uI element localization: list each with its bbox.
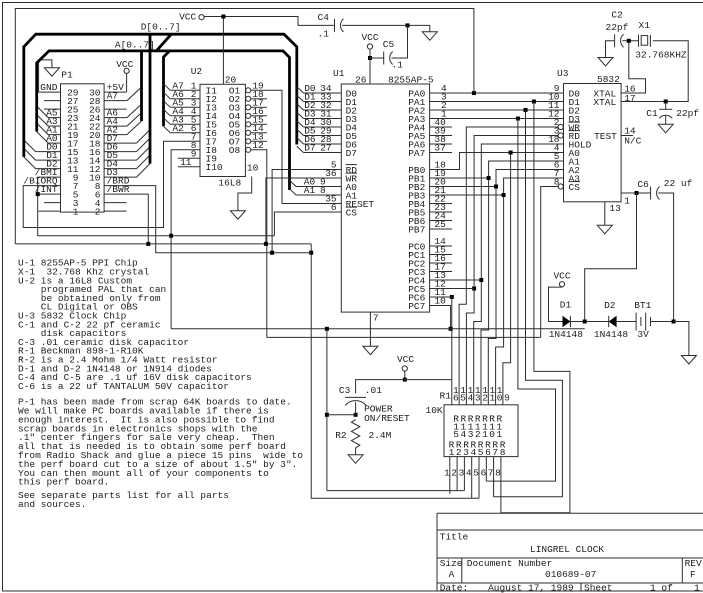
svg-text:C1: C1 [646, 108, 658, 119]
svg-text:.1: .1 [318, 29, 330, 40]
wire P1 A4 to A bus channel [104, 125, 127, 127]
wire P1 pin2 stub [104, 210, 127, 212]
wire U1 D3 from bus [297, 112, 304, 118]
svg-text:8: 8 [320, 185, 326, 196]
wire P1 A1 to A bus [48, 134, 60, 136]
wire R1 pin6 bottom [485, 457, 487, 482]
svg-text:3: 3 [475, 393, 481, 404]
svg-text:VCC: VCC [553, 271, 570, 282]
wire run to R1 pin3 [327, 490, 465, 492]
wire R1 pin1 bottom stub [449, 457, 451, 494]
wire run B (U2 O8 to U3 CS) [267, 336, 541, 338]
svg-text:1: 1 [444, 467, 450, 478]
wire net PA2/D2 [430, 109, 564, 111]
svg-text:1 of: 1 of [650, 583, 673, 593]
svg-text:17: 17 [624, 93, 635, 104]
wire U1 D4 from bus [297, 121, 304, 127]
pin U2 O8 bubble [246, 147, 251, 152]
wire X1 right to XTAL pin17 [621, 41, 688, 102]
ground R2 [348, 455, 363, 464]
svg-text:27: 27 [320, 143, 331, 154]
svg-text:PA7: PA7 [408, 148, 425, 159]
node PC7/run A junction [449, 327, 453, 331]
svg-text:4: 4 [468, 393, 474, 404]
wire U1 D1 from bus [297, 95, 304, 101]
wire net WR to R1 pin15 [459, 127, 558, 405]
svg-text:2: 2 [456, 447, 462, 458]
svg-text:5: 5 [478, 447, 484, 458]
node PA0 junction [472, 91, 476, 95]
svg-text:1: 1 [694, 583, 700, 593]
svg-text:N/C: N/C [624, 136, 641, 147]
svg-text:PB7: PB7 [408, 224, 425, 235]
wire VCC rail to C4 [204, 17, 334, 26]
wire P1 D4 to D bus channel [104, 168, 136, 170]
wire net D2 to R1 pin7 [494, 110, 563, 497]
title block [437, 512, 703, 514]
svg-text:1: 1 [73, 206, 79, 217]
svg-text:4: 4 [466, 467, 472, 478]
svg-text:3: 3 [463, 447, 469, 458]
node C4/C5 junction [406, 23, 410, 27]
svg-text:A2: A2 [172, 123, 184, 134]
node /BWR junction [146, 242, 150, 246]
ground U2 pin10 [230, 211, 245, 220]
wire U2 I9 stub [178, 157, 200, 159]
wire U1 PB6 stub [430, 220, 452, 222]
svg-text:10: 10 [247, 163, 259, 174]
wire U1 PA6 stub [430, 143, 452, 145]
wire net A0 second branch to R1 pin9 [503, 153, 511, 405]
node RD junction [270, 251, 274, 255]
svg-text:.01: .01 [365, 385, 382, 396]
svg-text:22pf: 22pf [676, 108, 699, 119]
wire D1 cathode to node [570, 321, 608, 323]
svg-text:7: 7 [488, 467, 494, 478]
svg-text:August 17, 1989: August 17, 1989 [488, 583, 574, 593]
svg-text:U1: U1 [333, 68, 345, 79]
node VCC reset junction [403, 378, 407, 382]
node power-on-reset junction [354, 413, 358, 417]
svg-text:C2: C2 [611, 10, 623, 21]
wire net /BMI run [38, 177, 275, 236]
wire U2 I8 drop to run A [171, 150, 200, 329]
wire net D1 to R1 pin8 [501, 102, 570, 513]
wire net PA1/D1 [430, 101, 564, 103]
ground U3 pin13 [597, 225, 612, 234]
wire U1 D2 from bus [297, 104, 304, 110]
wire U1 PA7 stub [430, 152, 452, 154]
wire U1 PC7 to run A [430, 306, 451, 329]
svg-text:A1: A1 [304, 185, 316, 196]
svg-text:8: 8 [495, 467, 501, 478]
wire VCC to D1 anode [549, 287, 563, 322]
svg-text:C5: C5 [383, 39, 395, 50]
wire P1 A2 to A bus channel [104, 134, 127, 136]
svg-text:and sources.: and sources. [18, 499, 86, 510]
wire net A0/PB0 [430, 153, 564, 170]
svg-text:VCC: VCC [361, 32, 378, 43]
wire U1 A0 from A bus [290, 180, 297, 186]
wire C5 to C4 node [391, 25, 407, 58]
PAL U2 16L8 [200, 84, 245, 176]
svg-text:1: 1 [449, 447, 455, 458]
wire P1 A0 to A bus [48, 142, 60, 144]
svg-text:26: 26 [355, 75, 367, 86]
wire U1 D7 from bus [297, 146, 304, 152]
PPI U1 8255AP-5 [341, 84, 429, 312]
bus D[0..7] top [24, 34, 297, 157]
node RD/PC5 junction [472, 287, 476, 291]
svg-text:D2: D2 [604, 300, 616, 311]
wire net PC6 pull to R1 pin16 [451, 297, 453, 405]
svg-text:2.4M: 2.4M [369, 430, 392, 441]
svg-text:A: A [449, 569, 455, 580]
wire U2 O3 stub [251, 106, 267, 108]
svg-text:4: 4 [471, 447, 477, 458]
wire net CS (U3) to run B [541, 187, 558, 338]
svg-text:GND: GND [40, 82, 57, 93]
wire P1 blank stubs left rows 27,25 [44, 100, 61, 102]
svg-text:CS: CS [569, 182, 581, 193]
wire P1 pin4 stub [104, 202, 127, 204]
svg-text:32.768KHZ: 32.768KHZ [635, 50, 687, 61]
bus A channel vertical (P1 right) [140, 52, 143, 121]
svg-text:2: 2 [95, 206, 101, 217]
svg-text:1N4148: 1N4148 [594, 329, 629, 340]
node PC6 junction [450, 295, 454, 299]
wire VCC to R1 pin16 [405, 379, 452, 381]
wire U2 I2 A6 [164, 92, 171, 99]
svg-text:9: 9 [504, 393, 510, 404]
svg-text:TEST: TEST [594, 131, 617, 142]
wire U1 PB4 stub [430, 203, 452, 205]
svg-text:8255AP-5: 8255AP-5 [388, 75, 434, 86]
svg-text:D[0..7]: D[0..7] [141, 22, 181, 33]
svg-text:6: 6 [453, 393, 459, 404]
wire R1 pin4 bottom stub [471, 457, 473, 499]
node PB1 junction [487, 176, 491, 180]
node WR junction [264, 242, 268, 246]
svg-text:C4: C4 [318, 12, 330, 23]
wire U2 pin10 to ground [238, 177, 252, 211]
clock chip U3 5832 [564, 84, 622, 202]
svg-text:Title: Title [440, 532, 469, 543]
svg-text:25: 25 [434, 219, 446, 230]
svg-text:20: 20 [225, 74, 237, 85]
wire U1 WR drop [266, 178, 341, 244]
bus A[0..7] top [37, 51, 290, 190]
svg-text:3: 3 [459, 467, 465, 478]
svg-text:12: 12 [252, 140, 264, 151]
wire net RD to R1 pin14 [466, 136, 558, 405]
svg-text:F: F [690, 569, 696, 580]
wire U2 O2 stub [251, 98, 267, 100]
wire net /BIORQ to U2 I7 [23, 141, 200, 227]
wire P1 blank stub right row 26 [104, 108, 127, 110]
node PB3 junction [502, 193, 506, 197]
svg-text:BT1: BT1 [634, 300, 651, 311]
wire net PA3/D3 [430, 118, 564, 120]
wire U1 A1 from A bus [290, 189, 297, 195]
pin U3 RD bubble [558, 133, 563, 138]
wire net U2 O1 to U1 RESET [251, 90, 341, 203]
svg-text:.1: .1 [392, 59, 404, 70]
wire U1 PC1 stub [430, 254, 452, 256]
wire U1 D0 from bus [297, 87, 304, 93]
svg-text:XTAL: XTAL [593, 97, 616, 108]
svg-text:Size: Size [440, 558, 463, 569]
svg-text:Date:: Date: [440, 583, 469, 593]
svg-text:VCC: VCC [397, 354, 414, 365]
svg-text:16L8: 16L8 [218, 178, 241, 189]
wire P1 D7 to D bus channel [104, 142, 136, 144]
wire net /BRD run [104, 186, 311, 253]
node diode junction [583, 320, 587, 324]
svg-text:C3: C3 [339, 385, 351, 396]
wire C6 left down to diode node [585, 193, 637, 322]
wire reset branch vertical [326, 329, 328, 491]
svg-text:D7: D7 [346, 148, 357, 159]
svg-text:X1: X1 [639, 20, 651, 31]
wire P1 pin1 stub [38, 210, 60, 212]
svg-text:CS: CS [346, 207, 358, 218]
wire run A [171, 328, 585, 330]
node /INT junction [36, 192, 40, 196]
ground C4 [422, 32, 437, 41]
svg-text:Document Number: Document Number [467, 558, 553, 569]
wire net PA0/D0 [430, 92, 564, 94]
ground P1 GND [39, 60, 61, 92]
bus D channel vertical (P1 right) [149, 36, 152, 164]
wire X1 left to XTAL pin16 [621, 43, 645, 93]
wire net PA0 to top rail [15, 9, 474, 244]
ground U1 pin7 [363, 346, 378, 355]
pin U2 O5 bubble [246, 122, 251, 127]
wire net HOLD to R1 pin13 [474, 144, 564, 405]
svg-text:PC7: PC7 [408, 301, 425, 312]
svg-text:C6: C6 [637, 179, 649, 190]
svg-text:5832: 5832 [597, 74, 620, 85]
svg-text:this perf board.: this perf board. [18, 477, 109, 488]
wire battery to ground [651, 321, 674, 323]
svg-text:REV: REV [685, 558, 702, 569]
wire P1 pin3 stub [44, 202, 61, 204]
svg-text:8: 8 [500, 447, 506, 458]
ground C2 [598, 58, 613, 67]
pin U3 TEST 14 N/C [621, 135, 633, 137]
wire U2 I4 A4 [164, 109, 171, 116]
svg-text:D1: D1 [560, 299, 572, 310]
wire P1 A7 to A bus channel [104, 100, 127, 102]
svg-text:6: 6 [485, 447, 491, 458]
svg-text:22pf: 22pf [606, 22, 629, 33]
svg-text:R1: R1 [440, 391, 452, 402]
wire P1 D6 to D bus channel [104, 151, 136, 153]
svg-text:5: 5 [460, 393, 466, 404]
node VCC/C5/U1-26 junction [368, 56, 372, 60]
wire C2 to X1 [622, 40, 638, 42]
wire U2 I3 A5 [164, 101, 171, 108]
svg-text:3V: 3V [637, 329, 649, 340]
wire P1 A3 to A bus [48, 125, 60, 127]
node run A / reset branch junction [325, 327, 329, 331]
svg-text:C-6 is a 22 uf TANTALUM 50V ca: C-6 is a 22 uf TANTALUM 50V capacitor [18, 381, 229, 392]
wire C6 right to battery node [658, 193, 673, 322]
svg-text:1N4148: 1N4148 [549, 329, 584, 340]
wire U2 I1 A7 [164, 84, 171, 91]
pin U2 O6 bubble [246, 130, 251, 135]
svg-text:2: 2 [482, 393, 488, 404]
wire P1 /INT join [38, 193, 61, 195]
wire P1 D3 to D bus channel [104, 176, 136, 178]
wire U1 PC5 [430, 288, 475, 290]
svg-text:U2: U2 [191, 66, 203, 77]
node C1 junction [664, 100, 668, 104]
wire U2 O7 stub [251, 140, 267, 142]
wire VCC to U1 pin 26 [369, 58, 371, 84]
wire U1 pin7 to ground [369, 312, 371, 346]
wire U1 RD drop [272, 170, 341, 253]
wire D2 anode to battery [617, 321, 637, 323]
pin U2 O3 bubble [246, 105, 251, 110]
svg-text:ON/RESET: ON/RESET [364, 413, 410, 424]
wire U3 pin13 to ground [604, 202, 606, 226]
svg-text:7: 7 [492, 447, 498, 458]
node PB2 junction [494, 185, 498, 189]
wire U1 PC2 stub [430, 262, 452, 264]
pin U3 CS bubble [558, 184, 563, 189]
wire U1 D5 from bus [297, 129, 304, 135]
svg-text:7: 7 [373, 313, 379, 324]
wire U2 O6 stub [251, 132, 267, 134]
wire R1 pin5 bottom [478, 457, 480, 499]
svg-text:U3: U3 [557, 68, 569, 79]
node VCC/U2-20 junction [221, 15, 225, 19]
wire U3 pin1 to C6 [621, 192, 651, 194]
wire P1 /BWR drop [104, 194, 148, 244]
wire U2 O5 stub [251, 123, 267, 125]
wire U1 PC3 stub [430, 271, 452, 273]
wire U2 I6 A2 [164, 126, 171, 133]
svg-text:37: 37 [434, 143, 445, 154]
svg-text:O8: O8 [229, 145, 241, 156]
node RD/WR runs junction [309, 251, 313, 255]
ground battery [681, 356, 696, 365]
svg-text:0: 0 [497, 393, 503, 404]
wire WR-net drop to R1 pin5 [311, 244, 479, 498]
wire U1 PC6 [430, 296, 452, 298]
svg-text:VCC: VCC [116, 59, 133, 70]
node power-on-reset tap [325, 413, 329, 417]
svg-text:22 uf: 22 uf [664, 178, 693, 189]
wire net A2/PB2 to R1 pin11 [430, 186, 496, 188]
svg-text:10K: 10K [426, 405, 443, 416]
wire R1 pin8 bottom [500, 457, 502, 513]
svg-text:13: 13 [609, 203, 621, 214]
wire R1 pin7 bottom [493, 457, 495, 497]
wire C4 to ground [342, 25, 430, 31]
wire U1 PC4 [430, 279, 482, 281]
wire U1 PB7 stub [430, 228, 452, 230]
node A0 row branch junction [509, 151, 513, 155]
svg-text:1: 1 [490, 393, 496, 404]
wire P1 A5 to A bus [48, 117, 60, 119]
svg-text:R2: R2 [335, 430, 347, 441]
wire U2 I5 A3 [164, 118, 171, 125]
wire U1 PA5 stub [430, 135, 452, 137]
ground C1 [658, 124, 673, 133]
wire U1 CS to run [274, 212, 341, 236]
node HOLD/PC4 junction [479, 278, 483, 282]
wire P1 D0 to D bus [36, 151, 61, 153]
wire R1 pin3 bottom [463, 457, 465, 491]
pin U2 O2 bubble [246, 96, 251, 101]
svg-text:6: 6 [481, 467, 487, 478]
wire P1 D2 to D bus [36, 168, 61, 170]
wire net /BWR run [15, 243, 311, 245]
pin U2 O4 bubble [246, 113, 251, 118]
svg-text:I10: I10 [206, 162, 223, 173]
wire U1 D6 from bus [297, 138, 304, 144]
connector P1 [61, 84, 105, 212]
node C6/pin1 junction [635, 191, 639, 195]
svg-text:VCC: VCC [179, 12, 196, 23]
svg-text:D7: D7 [304, 143, 315, 154]
wire U2 O4 stub [251, 115, 267, 117]
svg-text:010689-07: 010689-07 [545, 569, 596, 580]
wire P1 D5 to D bus channel [104, 159, 136, 161]
wire U1 PA4 stub [430, 126, 452, 128]
svg-text:A7: A7 [107, 91, 118, 102]
wire power-on-reset to reset branch [327, 414, 356, 416]
bus merge diagonal [156, 34, 171, 51]
wire net A1/PB1 to R1 pin12 [430, 177, 489, 179]
svg-text:5: 5 [473, 467, 479, 478]
wire U2 O8 to run B [251, 150, 267, 338]
wire C2 to ground [606, 41, 615, 58]
svg-text:Sheet: Sheet [584, 583, 613, 593]
svg-text:1: 1 [624, 195, 630, 206]
wire P1 D1 to D bus [36, 159, 61, 161]
pin U2 O1 bubble [246, 88, 251, 93]
wire R1 pin2 bottom stub [456, 457, 458, 491]
wire P1 A6 to A bus channel [104, 117, 127, 119]
bus A to U2 channel vertical [164, 51, 170, 126]
wire net D3 to R1 pin6 [486, 119, 555, 482]
svg-text:LINGREL CLOCK: LINGREL CLOCK [530, 544, 604, 555]
wire U1 PC0 stub [430, 245, 452, 247]
pin U3 WR bubble [558, 124, 563, 129]
power pin U2 20 VCC [222, 17, 224, 85]
wire VCC to C3 [356, 380, 405, 394]
wire U2 I10 stub [178, 166, 200, 168]
node C2/X1 junction [627, 39, 631, 43]
wire net A3/PB3 to R1 pin10 [430, 194, 504, 196]
pin U2 O7 bubble [246, 139, 251, 144]
resistor network R1 10K [444, 405, 518, 457]
svg-text:P1: P1 [61, 70, 73, 81]
svg-text:2: 2 [451, 467, 457, 478]
node I8 junction [169, 234, 173, 238]
wire U1 PB5 stub [430, 211, 452, 213]
